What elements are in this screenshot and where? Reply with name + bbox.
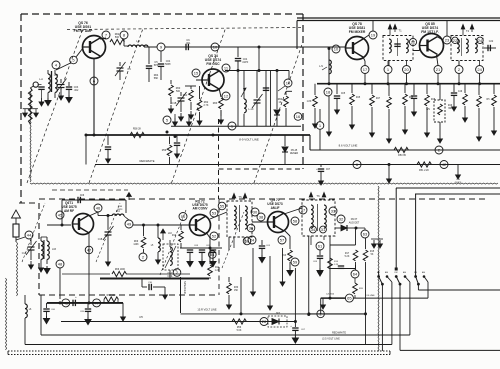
bottom right supply line	[400, 349, 500, 351]
label Q5	[61, 201, 77, 213]
label volume	[365, 295, 375, 297]
node 6	[90, 77, 98, 85]
switch contact wire 1b	[387, 277, 392, 345]
gang dashed diagonal 1	[27, 28, 83, 184]
column 465 res	[463, 84, 468, 122]
wire Q5 collector up	[89, 212, 98, 216]
column C49 cap	[451, 84, 463, 111]
mixer node 24	[476, 66, 484, 74]
svg-text:52: 52	[212, 234, 217, 239]
audio frame line	[25, 344, 392, 346]
transformer T5	[227, 194, 252, 249]
node 30	[251, 208, 259, 216]
transistor Q1 FM RF AMP	[83, 36, 106, 59]
column 479 res	[477, 84, 482, 141]
cap C20 column	[321, 294, 335, 310]
drop column 330	[328, 236, 333, 300]
svg-text:47: 47	[87, 248, 92, 253]
svg-text:48: 48	[58, 262, 63, 267]
svg-text:28: 28	[262, 319, 267, 324]
node 53	[210, 209, 218, 217]
transistor Q6 AM CONV	[190, 215, 211, 236]
gang dashed diagonal 2	[89, 28, 143, 184]
node 63	[356, 228, 369, 238]
svg-text:C0R: C0R	[118, 206, 123, 208]
svg-text:5.2K: 5.2K	[345, 256, 350, 258]
column C45 cap	[334, 84, 346, 114]
bus 8.6 volt line	[310, 135, 500, 150]
capacitor C84 column	[235, 48, 249, 127]
wire Q2 base parts	[185, 80, 202, 86]
resistor R11 column	[208, 237, 229, 279]
svg-text:T6: T6	[316, 194, 320, 198]
node 38	[257, 213, 265, 221]
node 1b	[316, 109, 324, 150]
gang arrows right	[371, 239, 383, 248]
zener D545	[282, 135, 298, 165]
resistor R59 column	[162, 135, 180, 165]
gang dashed diagonal 8 AM	[222, 212, 244, 268]
svg-text:200PF: 200PF	[455, 182, 462, 184]
mixer node 1	[384, 66, 392, 74]
column 427 res	[425, 84, 436, 137]
wire 241 column	[240, 277, 242, 314]
cap C09b column	[313, 250, 323, 276]
shield zigzag right vertical	[378, 186, 379, 352]
column R45 res	[350, 84, 361, 129]
node 18	[324, 88, 332, 136]
top right double supply line	[297, 18, 500, 49]
node 8	[120, 31, 128, 39]
svg-text:46: 46	[96, 206, 101, 211]
svg-text:44: 44	[27, 233, 32, 238]
outer dashed FM boundary	[21, 14, 303, 203]
svg-text:31: 31	[321, 227, 326, 232]
wire Q1 base diagonal	[76, 48, 83, 57]
wire Q4 collector	[438, 21, 448, 41]
wire collector row	[98, 214, 112, 217]
svg-text:C67: C67	[326, 169, 331, 171]
svg-text:34: 34	[311, 227, 316, 232]
volt line 313	[181, 308, 309, 316]
svg-text:AM CONV: AM CONV	[192, 207, 208, 211]
svg-text:23: 23	[445, 38, 450, 43]
cap C65 column	[80, 303, 91, 325]
svg-text:D07: D07	[276, 313, 281, 315]
osc diode column	[274, 71, 280, 127]
svg-text:C1A: C1A	[22, 252, 27, 255]
transistor Q3 FM MIXER	[346, 37, 369, 60]
svg-text:R47: R47	[376, 98, 381, 100]
node 56	[243, 237, 251, 245]
svg-text:61: 61	[318, 244, 323, 249]
node 34	[310, 226, 317, 233]
svg-text:L03: L03	[52, 248, 57, 251]
wire Q1 base down	[93, 59, 95, 136]
node 57	[278, 236, 286, 244]
capacitor C2 trimmer	[54, 74, 67, 100]
cap C07 column	[290, 268, 306, 343]
svg-text:50: 50	[181, 214, 186, 219]
column 389 res	[387, 84, 392, 143]
wire Q7 to T6	[284, 208, 302, 214]
svg-text:55: 55	[220, 204, 225, 209]
svg-text:12: 12	[224, 94, 229, 99]
switch contact wire 3b	[424, 277, 428, 299]
svg-text:FM: FM	[395, 272, 398, 274]
svg-text:54: 54	[210, 252, 215, 257]
svg-text:33: 33	[331, 209, 336, 214]
svg-text:500: 500	[115, 36, 120, 39]
svg-text:24: 24	[477, 67, 482, 72]
node 65 bus	[321, 294, 428, 314]
node 31	[320, 226, 327, 233]
switch S2	[395, 268, 407, 286]
osc variable cap column	[172, 92, 187, 121]
thermistor box	[426, 84, 453, 143]
AM varcap mid	[98, 216, 114, 267]
svg-text:L-1C: L-1C	[248, 108, 253, 111]
svg-text:R11: R11	[215, 267, 220, 269]
svg-text:8-9 VOLT LINE: 8-9 VOLT LINE	[239, 138, 259, 142]
bus junction dots	[93, 131, 215, 139]
node 2 bottom	[317, 310, 325, 318]
svg-text:5K: 5K	[371, 254, 374, 256]
am bottom loop parts	[142, 279, 167, 299]
node 28	[260, 318, 268, 326]
svg-text:C49: C49	[458, 91, 463, 93]
wire to node 9	[144, 46, 157, 48]
node 45	[56, 211, 64, 219]
node 50	[179, 213, 187, 221]
shield zigzag AM left	[6, 242, 18, 350]
svg-text:R63: R63	[213, 102, 218, 105]
svg-text:R10: R10	[172, 235, 177, 237]
drop column 253	[251, 248, 256, 296]
node 47 am	[85, 246, 93, 254]
svg-text:22: 22	[411, 40, 416, 45]
svg-text:R09: R09	[134, 241, 139, 243]
ground AM coil	[39, 264, 50, 274]
svg-text:T5: T5	[238, 195, 242, 199]
svg-text:T1: T1	[398, 29, 402, 33]
svg-text:24: 24	[250, 238, 255, 243]
svg-text:8.6 VOLT LINE: 8.6 VOLT LINE	[339, 144, 358, 148]
capacitor C22 output	[484, 40, 496, 51]
wire T boxes to bus	[389, 61, 459, 66]
column R44 res	[307, 84, 318, 128]
svg-text:FM: FM	[414, 272, 417, 274]
svg-text:(3.5 VOLT LINE: (3.5 VOLT LINE	[322, 338, 340, 341]
node 15	[192, 69, 200, 77]
svg-text:500: 500	[176, 90, 181, 93]
resistor R14 inline	[334, 261, 339, 266]
coil L1F arrow	[161, 229, 173, 240]
svg-text:RED/WHITE: RED/WHITE	[139, 159, 154, 163]
svg-text:56PF: 56PF	[165, 63, 171, 66]
svg-text:FM RF AMP: FM RF AMP	[74, 29, 93, 33]
capacitor C6 inline	[186, 39, 191, 50]
column R52 res	[487, 84, 497, 135]
svg-text:C06: C06	[80, 195, 85, 197]
wire Q5 emitter down	[88, 232, 90, 303]
resistor R09 column	[133, 225, 145, 253]
variable capacitor C4	[115, 62, 131, 80]
node 47 audio	[59, 299, 101, 307]
svg-text:1.8K: 1.8K	[307, 101, 312, 103]
gang dashed diagonal 5 AM	[22, 203, 45, 262]
svg-text:C22: C22	[489, 40, 494, 43]
svg-text:FM 1ST I.F.: FM 1ST I.F.	[421, 30, 439, 34]
node 5	[163, 116, 171, 124]
drop column 282	[280, 248, 285, 286]
transistor Q5 AM RF	[73, 214, 94, 235]
cap to gnd left bus	[105, 135, 111, 163]
column R47 res	[370, 84, 381, 137]
svg-text:C1B: C1B	[172, 102, 177, 105]
rect diode D07	[268, 313, 287, 327]
svg-text:2.7K: 2.7K	[204, 104, 209, 107]
wire FM signal line	[165, 46, 346, 48]
node 33	[329, 207, 337, 215]
node 32	[337, 215, 345, 223]
node 2 on 8.6 line	[435, 146, 443, 154]
node 61	[316, 242, 324, 250]
svg-text:120K: 120K	[133, 244, 139, 246]
resistor R64 column	[278, 71, 292, 127]
cap C03 column	[259, 240, 271, 263]
node 5 rf	[70, 56, 78, 64]
switch S1	[377, 271, 388, 286]
node 6 red line	[353, 161, 361, 169]
transistor Q7 AM IF	[268, 212, 289, 233]
detector load column	[330, 228, 358, 269]
FM antenna jack	[23, 82, 45, 124]
node 48 audio	[60, 268, 70, 307]
wire AM row to Q6	[133, 224, 190, 227]
wire Q2 emitter down	[213, 88, 224, 124]
node 10 mixer	[332, 45, 340, 53]
svg-text:R50 95: R50 95	[398, 154, 406, 157]
svg-text:L1F: L1F	[168, 233, 173, 235]
antenna coil T	[39, 70, 57, 98]
osc column 4	[263, 71, 271, 127]
svg-text:20: 20	[404, 67, 409, 72]
wire AM base	[47, 224, 71, 227]
wire red/white line	[95, 164, 500, 166]
resistor R50 on 8.6 line	[394, 147, 408, 157]
svg-text:L-3: L-3	[136, 40, 140, 43]
drop 389	[387, 163, 392, 183]
wire Q6 emitter	[206, 232, 212, 258]
node 59	[291, 258, 299, 266]
svg-text:45: 45	[58, 213, 63, 218]
dashed AM boundary	[19, 190, 485, 295]
switch S3	[414, 271, 425, 286]
drop column 270	[268, 256, 273, 310]
resistor R51	[417, 162, 431, 172]
right route outer	[396, 188, 500, 268]
label red/white	[139, 159, 154, 163]
cap C60 column	[43, 303, 55, 324]
node 36b	[247, 224, 255, 232]
svg-text:12V: 12V	[426, 109, 431, 111]
svg-text:58: 58	[293, 219, 298, 224]
svg-text:R17: R17	[345, 253, 350, 255]
audio return line	[61, 317, 296, 322]
svg-text:R59: R59	[162, 149, 167, 152]
node 48 am	[56, 260, 64, 268]
label Q2	[205, 54, 222, 66]
detector diode D9	[335, 218, 360, 231]
svg-text:63: 63	[363, 232, 368, 237]
capacitor C5 column	[146, 47, 159, 82]
wire osc coil bottom	[147, 257, 170, 279]
wire mixer emitter down	[363, 57, 365, 66]
svg-text:L1C: L1C	[116, 211, 121, 213]
resistor R60 column	[169, 80, 181, 113]
svg-text:53: 53	[212, 211, 217, 216]
IF transformer T2	[451, 25, 483, 61]
svg-text:R66 100K: R66 100K	[115, 269, 126, 271]
gang dashed diagonal 4	[254, 42, 303, 184]
svg-text:56K: 56K	[154, 77, 159, 80]
svg-text:10: 10	[213, 45, 218, 50]
svg-text:15K: 15K	[234, 290, 239, 292]
svg-text:10: 10	[334, 47, 339, 52]
svg-text:VOLUME: VOLUME	[365, 295, 375, 297]
volume pot column	[363, 238, 375, 345]
svg-text:.002: .002	[74, 89, 79, 92]
node 46	[94, 204, 102, 212]
node 17	[361, 66, 369, 74]
svg-text:17: 17	[363, 67, 368, 72]
mixer node 2	[455, 66, 463, 74]
osc coil box	[163, 240, 178, 278]
coil L3	[128, 40, 148, 47]
AM antenna coil L03	[41, 237, 57, 264]
svg-text:L-A: L-A	[39, 78, 43, 81]
svg-text:FM MIXER: FM MIXER	[349, 30, 366, 34]
svg-text:L-N: L-N	[319, 65, 323, 68]
switch contact wire 2b	[405, 277, 410, 336]
left column 39	[40, 295, 42, 335]
resistor R56	[232, 319, 246, 332]
capacitor C64 column	[158, 51, 172, 80]
svg-text:R30: R30	[234, 287, 239, 289]
svg-text:1K: 1K	[279, 101, 282, 104]
label Q6	[192, 200, 208, 211]
svg-text:R45: R45	[356, 97, 361, 99]
switch pole wire 2	[399, 284, 401, 350]
long resistor R66 wire	[62, 269, 190, 277]
mixer node 21	[434, 66, 442, 74]
node 10	[211, 43, 219, 51]
node 22	[409, 38, 416, 45]
label Q1	[74, 21, 93, 33]
svg-text:C02: C02	[54, 74, 59, 77]
ground T1 left	[45, 98, 51, 106]
AM antenna	[12, 210, 21, 242]
feedback loop wire	[62, 193, 131, 226]
shield zigzag FM left	[30, 92, 31, 182]
svg-text:19: 19	[371, 33, 376, 38]
resistor R02	[110, 33, 124, 45]
wire mixer collector up	[363, 35, 369, 39]
transistor Q2 FM OSC	[202, 69, 224, 91]
node 14	[278, 79, 292, 91]
node 24 am	[248, 236, 256, 244]
capacitor C3 column	[66, 82, 79, 103]
coil L1C column	[241, 71, 254, 127]
mixer node 20	[403, 66, 411, 74]
node 58	[291, 217, 299, 225]
svg-text:1.2K: 1.2K	[215, 270, 220, 272]
svg-text:22: 22	[453, 38, 458, 43]
node 12	[222, 92, 230, 100]
coil L6 column	[25, 295, 32, 345]
redwhite bottom labels	[322, 332, 346, 341]
svg-text:15.R VOLT LINE: 15.R VOLT LINE	[197, 308, 216, 312]
node 1 osc	[228, 122, 236, 130]
label Q7	[267, 198, 283, 210]
svg-text:AM: AM	[403, 271, 406, 274]
wire node5 to coil	[56, 63, 71, 70]
resistor R62 column	[197, 86, 209, 125]
wire T1 to Q4	[413, 46, 420, 51]
audio bus	[47, 303, 125, 321]
svg-text:65: 65	[347, 296, 352, 301]
bus 314 segment	[307, 312, 365, 315]
gang dashed bar	[67, 28, 303, 30]
node 54	[209, 251, 217, 259]
svg-text:64: 64	[353, 272, 358, 277]
electrolytic inline	[73, 295, 77, 306]
column R46 res	[403, 60, 414, 134]
svg-text:16: 16	[296, 114, 301, 119]
AM tuning cap C1A	[22, 239, 37, 269]
node 23	[443, 36, 451, 44]
cap C0R column	[117, 200, 123, 211]
gang dashed diagonal 3	[172, 28, 226, 184]
bus 8-9 volt line	[85, 134, 311, 165]
bottom mid ground	[317, 268, 323, 276]
svg-text:C1B: C1B	[98, 239, 103, 241]
svg-text:AM: AM	[422, 271, 425, 274]
node 44	[16, 231, 33, 240]
bus FM top right	[317, 82, 500, 85]
gang dashed diagonal 7 AM	[160, 210, 186, 275]
svg-text:42: 42	[442, 162, 447, 167]
node 4	[52, 61, 60, 69]
svg-text:SPEAKER: SPEAKER	[183, 281, 187, 294]
wire Q7 emitter down	[282, 230, 293, 276]
wire node 8 to L3	[124, 39, 128, 46]
node 11	[222, 64, 230, 72]
svg-text:14: 14	[286, 81, 291, 86]
bus drops to circles	[365, 61, 480, 84]
speaker line	[181, 277, 188, 313]
IF transformer T1	[383, 25, 413, 61]
node 52	[210, 232, 218, 240]
svg-text:R15: R15	[370, 251, 375, 253]
right route inner	[415, 194, 500, 277]
svg-text:36: 36	[249, 226, 254, 231]
right mid line	[418, 289, 500, 291]
svg-text:C05: C05	[341, 93, 346, 95]
shield zigzag horizontal	[30, 183, 498, 184]
node 2 am rf	[139, 253, 147, 261]
